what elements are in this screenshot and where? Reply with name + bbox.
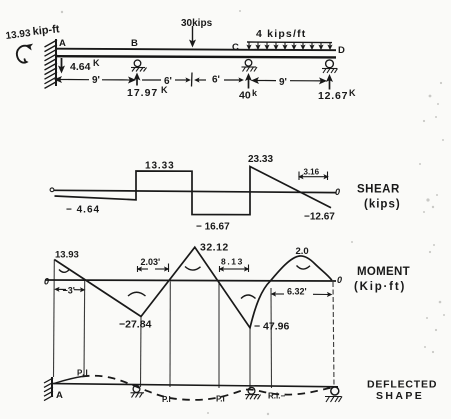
projection line at C	[249, 328, 251, 389]
svg-text:− 16.67: − 16.67	[196, 222, 230, 233]
wall support at A (deflected)	[51, 377, 53, 397]
svg-text:6': 6'	[212, 75, 220, 86]
svg-text:A: A	[59, 38, 66, 49]
wall hatching	[45, 40, 58, 88]
projection line at A	[53, 260, 56, 378]
projection line at D	[333, 282, 334, 387]
tick at load point	[191, 73, 194, 87]
svg-text:30kips: 30kips	[181, 18, 213, 29]
roller support B (deflected)	[133, 386, 140, 393]
svg-text:−27.84: −27.84	[119, 319, 152, 331]
svg-text:P.I: P.I	[162, 395, 171, 404]
curvature frown above -47.96	[241, 295, 256, 299]
reaction arrow at B (up)	[136, 76, 138, 86]
svg-text:2.03': 2.03'	[141, 257, 161, 267]
svg-text:3.16: 3.16	[304, 168, 320, 177]
reaction arrow at A (down)	[61, 58, 63, 71]
svg-text:(kips): (kips)	[364, 199, 401, 211]
svg-text:P.I: P.I	[216, 395, 225, 404]
svg-text:8.13: 8.13	[221, 257, 244, 267]
svg-text:−12.67: −12.67	[304, 212, 335, 223]
svg-text:SHAPE: SHAPE	[376, 390, 424, 402]
svg-text:R.I.−: R.I.−	[268, 392, 285, 401]
svg-text:4.64: 4.64	[70, 61, 91, 73]
deflected curve dashed	[82, 376, 333, 400]
svg-text:0: 0	[337, 275, 342, 285]
dimension 6' B-load	[142, 79, 161, 81]
svg-text:MOMENT: MOMENT	[357, 266, 410, 278]
svg-text:23.33: 23.33	[248, 154, 273, 165]
beam bottom chord	[56, 56, 336, 57]
svg-text:2.0: 2.0	[296, 246, 309, 257]
roller support D	[326, 60, 334, 68]
svg-text:− 4.64: − 4.64	[66, 205, 100, 216]
distributed load arrows	[249, 42, 330, 47]
svg-text:(Kip·ft): (Kip·ft)	[354, 281, 406, 293]
projection line at 3ft crossing	[83, 281, 86, 378]
svg-text:−3': −3'	[63, 286, 75, 296]
reaction arrow at C (up)	[248, 76, 250, 89]
shear axis	[54, 190, 336, 192]
svg-text:P.I: P.I	[77, 369, 89, 378]
svg-text:D: D	[338, 45, 345, 56]
svg-text:17.97: 17.97	[127, 87, 158, 99]
curvature smile under 13.93	[59, 270, 69, 273]
svg-text:0: 0	[335, 187, 340, 197]
svg-text:− 47.96: − 47.96	[254, 321, 289, 333]
svg-text:0: 0	[44, 277, 49, 287]
projection line at 6.32 crossing	[270, 288, 273, 388]
curvature smile under 32.12	[185, 267, 201, 271]
dimension 6' load-C	[197, 79, 206, 81]
undeflected beam baseline	[53, 384, 338, 387]
svg-text:C: C	[232, 42, 239, 53]
point load arrow	[192, 26, 194, 45]
svg-text:13.33: 13.33	[145, 161, 175, 172]
svg-text:6': 6'	[164, 76, 172, 87]
svg-text:K: K	[93, 58, 100, 68]
wall support at A	[55, 39, 57, 86]
projection line at B	[140, 317, 143, 388]
svg-text:40: 40	[239, 90, 251, 102]
applied moment curved arrow	[17, 46, 28, 63]
svg-text:9': 9'	[92, 75, 100, 86]
svg-text:DEFLECTED: DEFLECTED	[367, 379, 437, 391]
moment curve	[54, 247, 332, 328]
svg-text:13.93: 13.93	[55, 250, 79, 261]
distributed load top line	[247, 41, 332, 44]
curvature frown above -27.84	[128, 292, 146, 296]
svg-text:B: B	[131, 38, 138, 49]
deflected curve solid start	[54, 377, 82, 384]
svg-text:SHEAR: SHEAR	[357, 184, 400, 196]
roller support C	[245, 60, 252, 67]
shear curve	[55, 167, 332, 215]
svg-text:9': 9'	[279, 77, 287, 88]
curvature smile under 20	[297, 266, 311, 270]
svg-text:A: A	[56, 390, 63, 401]
projection line at 8.13 crossing	[218, 282, 220, 388]
roller support D (deflected)	[331, 387, 339, 395]
moment axis	[45, 280, 336, 281]
shear zero marker left	[50, 188, 54, 192]
svg-text:K: K	[349, 88, 356, 98]
roller support B	[134, 60, 141, 67]
dimension 9' C-D	[254, 80, 265, 82]
svg-text:4 kips/ft: 4 kips/ft	[256, 28, 306, 40]
reaction arrow at D (up)	[329, 77, 331, 90]
svg-text:12.67: 12.67	[318, 90, 348, 102]
projection line at 2.03ft crossing	[169, 282, 171, 388]
dimension 3'	[57, 288, 66, 290]
dimension 9' A-B	[57, 79, 68, 81]
beam top chord	[56, 49, 336, 51]
svg-text:6.32': 6.32'	[287, 287, 307, 297]
svg-text:32.12: 32.12	[200, 242, 229, 254]
roller support C (deflected)	[248, 387, 255, 394]
